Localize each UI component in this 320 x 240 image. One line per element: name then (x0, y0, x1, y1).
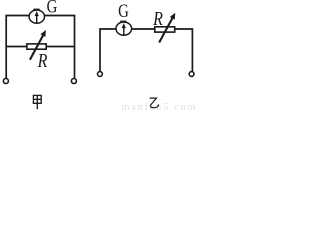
galvanometer G1 top bar (33, 9, 39, 11)
svg-text:R: R (37, 50, 48, 72)
svg-text:manfen5.com: manfen5.com (122, 102, 196, 111)
rheostat R1 body (left circuit) (27, 44, 46, 49)
svg-text:G: G (47, 0, 58, 17)
terminal (left circuit, left) (3, 79, 8, 84)
galvanometer G1 circle (left circuit) (29, 10, 44, 23)
label 甲 (drawn) (33, 95, 41, 109)
terminal (left circuit, right) (71, 79, 76, 84)
terminal (right circuit, right) (189, 72, 194, 77)
galvanometer G2 needle arrow (122, 23, 126, 35)
rheostat R1 arrow (30, 30, 46, 60)
galvanometer G1 needle arrow (35, 11, 39, 23)
svg-text:R: R (152, 8, 163, 30)
wire left circuit outer loop (6, 16, 74, 79)
svg-text:G: G (118, 0, 129, 21)
terminal (right circuit, left) (98, 72, 103, 77)
rheostat R2 arrow (159, 13, 175, 43)
rheostat R2 body (right circuit) (155, 27, 175, 32)
wire right circuit top (100, 29, 192, 71)
wire left circuit middle branch (6, 46, 74, 48)
galvanometer G2 circle (right circuit) (116, 22, 132, 35)
label 乙 (drawn) (150, 98, 159, 108)
label yi hook terminal (158, 104, 160, 106)
galvanometer G2 top bar (120, 21, 126, 23)
